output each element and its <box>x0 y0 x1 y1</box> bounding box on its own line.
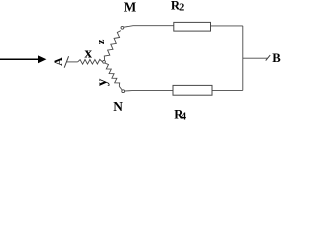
resistor x (zigzag) <box>78 59 103 64</box>
svg-text:A: A <box>51 57 65 66</box>
svg-text:4: 4 <box>181 111 186 122</box>
terminal tick at B <box>266 55 271 61</box>
wire N to R4 <box>125 90 173 92</box>
wire to terminal B <box>243 57 268 59</box>
resistor y (zigzag to N) <box>105 63 119 86</box>
node M circle <box>121 26 124 29</box>
svg-text:2: 2 <box>179 3 184 14</box>
right rail (vertical wire) <box>242 26 244 91</box>
wire R2 to right rail <box>211 25 243 27</box>
wire y to node N <box>119 86 122 90</box>
svg-text:y: y <box>95 78 111 86</box>
resistor R2 (box) <box>174 22 211 31</box>
wire A to resistor x <box>66 61 77 63</box>
svg-text:M: M <box>124 0 137 15</box>
junction node (wiper junction) <box>103 60 106 63</box>
wiper tick at A <box>64 56 68 67</box>
svg-text:x: x <box>84 46 92 62</box>
svg-text:z: z <box>96 39 107 44</box>
svg-text:B: B <box>272 51 281 65</box>
input arrow <box>0 55 46 63</box>
wire M to R2 <box>124 26 174 28</box>
svg-text:N: N <box>113 99 123 114</box>
resistor z (zigzag to M) <box>104 31 121 60</box>
resistor R4 (box) <box>173 85 212 95</box>
node N circle <box>122 90 125 93</box>
wire R4 to right rail <box>212 89 243 91</box>
